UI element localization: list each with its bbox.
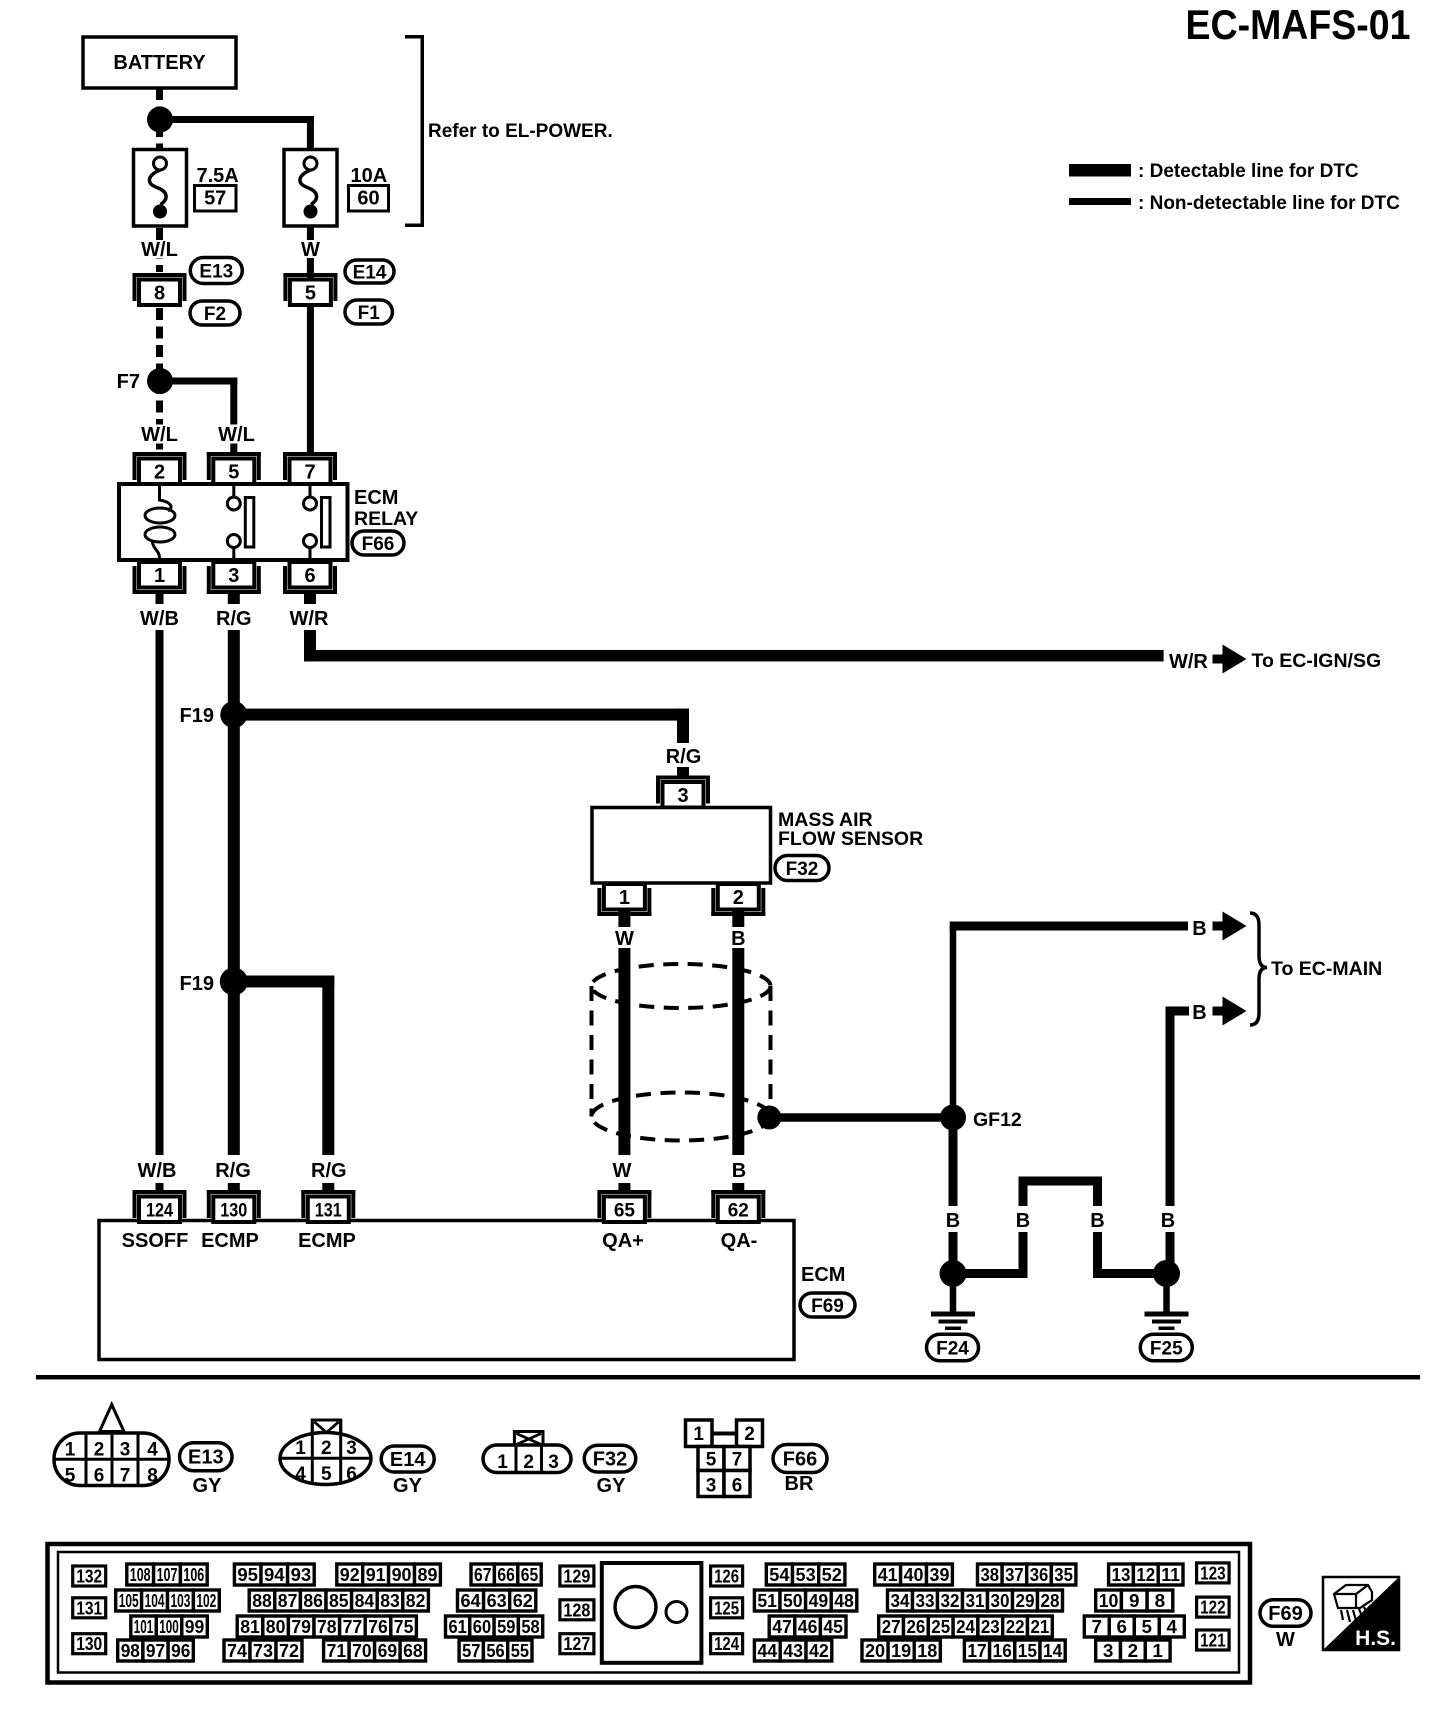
svg-text:F19: F19	[180, 973, 214, 995]
svg-text:82: 82	[406, 1591, 426, 1611]
svg-text:61: 61	[449, 1617, 467, 1637]
svg-text:QA-: QA-	[721, 1230, 758, 1252]
svg-text:22: 22	[1006, 1617, 1025, 1637]
svg-text:38: 38	[981, 1565, 1000, 1585]
svg-text:84: 84	[355, 1591, 375, 1611]
svg-text:39: 39	[930, 1565, 950, 1585]
svg-text:83: 83	[380, 1591, 400, 1611]
svg-text:1: 1	[154, 565, 165, 587]
svg-text:97: 97	[146, 1641, 165, 1661]
svg-text:B: B	[1090, 1210, 1104, 1232]
svg-text:7.5A: 7.5A	[197, 165, 239, 187]
svg-text:25: 25	[931, 1617, 950, 1637]
svg-text:10A: 10A	[351, 165, 388, 187]
svg-text:F19: F19	[180, 705, 214, 727]
svg-text:B: B	[1016, 1210, 1030, 1232]
svg-text:R/G: R/G	[215, 1160, 251, 1182]
svg-text:7: 7	[732, 1450, 743, 1471]
svg-text:5: 5	[65, 1466, 76, 1487]
svg-text:16: 16	[993, 1641, 1012, 1661]
svg-text:B: B	[1192, 1002, 1206, 1024]
svg-text:132: 132	[76, 1567, 102, 1587]
svg-text:86: 86	[303, 1591, 323, 1611]
svg-text:FLOW SENSOR: FLOW SENSOR	[778, 828, 923, 850]
svg-text:GF12: GF12	[973, 1109, 1022, 1131]
svg-text:21: 21	[1031, 1617, 1050, 1637]
svg-text:24: 24	[956, 1617, 975, 1637]
svg-text:41: 41	[878, 1565, 898, 1585]
svg-text:W/B: W/B	[140, 608, 179, 630]
svg-text:To EC-MAIN: To EC-MAIN	[1271, 958, 1382, 980]
svg-text:98: 98	[121, 1641, 140, 1661]
svg-text:W: W	[613, 1160, 632, 1182]
svg-text:F2: F2	[204, 304, 226, 325]
svg-text:6: 6	[304, 565, 315, 587]
svg-text:1: 1	[619, 887, 630, 909]
svg-text:1: 1	[65, 1440, 76, 1461]
svg-text:19: 19	[891, 1641, 911, 1661]
svg-text:37: 37	[1005, 1565, 1024, 1585]
svg-text:103: 103	[171, 1591, 191, 1611]
svg-text:2: 2	[321, 1438, 332, 1459]
svg-text:92: 92	[340, 1565, 360, 1585]
svg-text:48: 48	[834, 1591, 854, 1611]
svg-text:66: 66	[497, 1565, 514, 1585]
svg-text:17: 17	[967, 1641, 986, 1661]
svg-text:33: 33	[916, 1591, 935, 1611]
svg-text:W/L: W/L	[218, 424, 255, 446]
svg-text:122: 122	[1200, 1598, 1226, 1618]
svg-text:35: 35	[1054, 1565, 1073, 1585]
svg-text:67: 67	[474, 1565, 491, 1585]
svg-text:69: 69	[378, 1641, 398, 1661]
svg-text:To EC-IGN/SG: To EC-IGN/SG	[1252, 650, 1382, 672]
svg-text:71: 71	[327, 1641, 347, 1661]
svg-text:85: 85	[329, 1591, 349, 1611]
svg-text:5: 5	[305, 282, 316, 304]
svg-text:123: 123	[1200, 1563, 1226, 1583]
svg-text:3: 3	[228, 565, 239, 587]
svg-text:3: 3	[1103, 1641, 1114, 1661]
svg-text:H.S.: H.S.	[1355, 1627, 1396, 1650]
svg-text:8: 8	[1155, 1591, 1166, 1611]
svg-text:6: 6	[94, 1466, 105, 1487]
svg-text:51: 51	[757, 1591, 777, 1611]
svg-text:88: 88	[252, 1591, 272, 1611]
svg-text:3: 3	[346, 1438, 357, 1459]
svg-text:E14: E14	[390, 1449, 426, 1471]
svg-text:23: 23	[981, 1617, 1000, 1637]
svg-text:46: 46	[798, 1617, 818, 1637]
svg-text:125: 125	[714, 1598, 739, 1618]
svg-text:2: 2	[1128, 1641, 1139, 1661]
svg-text:43: 43	[783, 1641, 803, 1661]
svg-text:EC-MAFS-01: EC-MAFS-01	[1186, 1, 1411, 48]
svg-text:4: 4	[147, 1440, 158, 1461]
svg-text:6: 6	[732, 1476, 743, 1497]
svg-text:9: 9	[1129, 1591, 1140, 1611]
svg-text:2: 2	[154, 461, 165, 483]
svg-text:57: 57	[204, 188, 226, 210]
svg-text:2: 2	[744, 1424, 755, 1445]
svg-text:7: 7	[120, 1466, 131, 1487]
svg-text:5: 5	[321, 1464, 332, 1485]
svg-text:11: 11	[1161, 1565, 1180, 1585]
svg-text:36: 36	[1030, 1565, 1049, 1585]
svg-text:R/G: R/G	[311, 1160, 347, 1182]
svg-text:50: 50	[783, 1591, 803, 1611]
svg-text:GY: GY	[193, 1475, 223, 1497]
svg-text:QA+: QA+	[602, 1230, 644, 1252]
svg-text:29: 29	[1016, 1591, 1035, 1611]
svg-text:62: 62	[513, 1591, 533, 1611]
svg-text:60: 60	[357, 188, 379, 210]
svg-text:W/L: W/L	[141, 239, 178, 261]
svg-text:68: 68	[403, 1641, 423, 1661]
svg-text:44: 44	[757, 1641, 777, 1661]
svg-text:30: 30	[991, 1591, 1010, 1611]
svg-text:8: 8	[147, 1466, 158, 1487]
svg-text:Refer to EL-POWER.: Refer to EL-POWER.	[428, 121, 613, 142]
svg-text:90: 90	[392, 1565, 412, 1585]
svg-text:GY: GY	[597, 1475, 627, 1497]
svg-text:B: B	[946, 1210, 960, 1232]
svg-text:ECM: ECM	[354, 487, 398, 509]
svg-text:121: 121	[1200, 1631, 1226, 1651]
svg-text:76: 76	[368, 1617, 388, 1637]
svg-text:7: 7	[304, 461, 315, 483]
svg-text:31: 31	[966, 1591, 985, 1611]
svg-text:B: B	[1192, 918, 1206, 940]
svg-text:127: 127	[563, 1634, 590, 1654]
svg-text:15: 15	[1018, 1641, 1037, 1661]
svg-text:27: 27	[882, 1617, 901, 1637]
svg-text:28: 28	[1041, 1591, 1060, 1611]
svg-text:3: 3	[120, 1440, 131, 1461]
svg-text:56: 56	[486, 1641, 504, 1661]
svg-text:1: 1	[693, 1424, 704, 1445]
svg-text:5: 5	[706, 1450, 717, 1471]
svg-text:128: 128	[563, 1600, 590, 1620]
svg-text:GY: GY	[393, 1475, 423, 1497]
svg-text:W: W	[301, 239, 320, 261]
svg-text:77: 77	[343, 1617, 363, 1637]
svg-text:18: 18	[917, 1641, 937, 1661]
svg-text:F1: F1	[358, 303, 381, 324]
svg-text:53: 53	[796, 1565, 816, 1585]
svg-text:58: 58	[521, 1617, 539, 1637]
svg-text:F69: F69	[1268, 1603, 1302, 1625]
svg-text:101: 101	[134, 1617, 154, 1637]
svg-text:78: 78	[317, 1617, 337, 1637]
svg-text:70: 70	[352, 1641, 372, 1661]
svg-text:6: 6	[1117, 1617, 1128, 1637]
svg-text:26: 26	[907, 1617, 926, 1637]
svg-text:42: 42	[809, 1641, 829, 1661]
svg-text:129: 129	[563, 1567, 590, 1587]
svg-text:108: 108	[130, 1565, 151, 1585]
svg-text:ECMP: ECMP	[201, 1230, 259, 1252]
svg-text:B: B	[1161, 1210, 1175, 1232]
svg-text:104: 104	[145, 1591, 165, 1611]
svg-text:E13: E13	[199, 262, 233, 283]
svg-text:BATTERY: BATTERY	[113, 52, 206, 74]
svg-text:B: B	[731, 928, 745, 950]
svg-text:6: 6	[346, 1464, 357, 1485]
svg-text:34: 34	[891, 1591, 910, 1611]
svg-text:1: 1	[1152, 1641, 1163, 1661]
svg-text:55: 55	[511, 1641, 529, 1661]
svg-text:89: 89	[418, 1565, 438, 1585]
svg-text:BR: BR	[785, 1473, 814, 1495]
svg-text:13: 13	[1112, 1565, 1131, 1585]
svg-text:ECMP: ECMP	[298, 1230, 356, 1252]
svg-text:8: 8	[154, 282, 165, 304]
svg-text:E14: E14	[353, 263, 387, 284]
svg-text:B: B	[732, 1160, 746, 1182]
svg-text:130: 130	[220, 1200, 247, 1221]
svg-text:R/G: R/G	[666, 746, 702, 768]
svg-text:99: 99	[185, 1617, 205, 1637]
svg-text:106: 106	[183, 1565, 204, 1585]
svg-text:4: 4	[1167, 1617, 1178, 1637]
svg-text:W/L: W/L	[141, 424, 178, 446]
svg-text:F69: F69	[811, 1296, 844, 1317]
svg-text:91: 91	[366, 1565, 386, 1585]
svg-text:2: 2	[523, 1452, 534, 1473]
svg-text:F25: F25	[1150, 1339, 1183, 1360]
svg-text:W/R: W/R	[290, 608, 329, 630]
svg-text:12: 12	[1136, 1565, 1155, 1585]
svg-text:5: 5	[1142, 1617, 1153, 1637]
svg-text:131: 131	[76, 1598, 102, 1618]
svg-text:57: 57	[462, 1641, 480, 1661]
svg-text:81: 81	[240, 1617, 260, 1637]
svg-text:4: 4	[295, 1464, 306, 1485]
svg-text:RELAY: RELAY	[354, 508, 418, 530]
svg-text:79: 79	[291, 1617, 311, 1637]
svg-text:20: 20	[865, 1641, 885, 1661]
svg-text:: Non-detectable line for DTC: : Non-detectable line for DTC	[1138, 193, 1400, 214]
svg-text:52: 52	[822, 1565, 842, 1585]
svg-text:1: 1	[497, 1452, 508, 1473]
svg-text:E13: E13	[188, 1447, 224, 1469]
svg-text:F32: F32	[593, 1449, 627, 1471]
svg-text:: Detectable line for DTC: : Detectable line for DTC	[1138, 161, 1359, 182]
svg-text:14: 14	[1043, 1641, 1062, 1661]
svg-text:F66: F66	[783, 1449, 817, 1471]
svg-text:W: W	[615, 928, 634, 950]
svg-text:95: 95	[237, 1565, 258, 1585]
svg-text:73: 73	[253, 1641, 273, 1661]
svg-text:105: 105	[119, 1591, 139, 1611]
svg-text:F7: F7	[117, 371, 140, 393]
svg-text:93: 93	[291, 1565, 312, 1585]
svg-text:65: 65	[614, 1200, 636, 1221]
svg-text:100: 100	[159, 1617, 179, 1637]
svg-text:W/B: W/B	[138, 1160, 177, 1182]
svg-text:W/R: W/R	[1169, 651, 1208, 673]
svg-text:5: 5	[228, 461, 239, 483]
svg-text:3: 3	[548, 1452, 559, 1473]
svg-text:130: 130	[76, 1634, 102, 1654]
svg-text:131: 131	[315, 1200, 342, 1221]
svg-text:47: 47	[772, 1617, 792, 1637]
svg-text:63: 63	[487, 1591, 507, 1611]
svg-text:3: 3	[706, 1476, 717, 1497]
svg-text:80: 80	[266, 1617, 286, 1637]
svg-text:W: W	[1276, 1629, 1295, 1651]
svg-text:F66: F66	[362, 534, 395, 555]
svg-text:F24: F24	[936, 1339, 969, 1360]
svg-text:F32: F32	[786, 859, 819, 880]
svg-text:45: 45	[823, 1617, 843, 1637]
svg-text:64: 64	[461, 1591, 481, 1611]
svg-text:2: 2	[94, 1440, 105, 1461]
svg-text:126: 126	[714, 1567, 739, 1587]
svg-text:124: 124	[146, 1200, 173, 1221]
svg-text:10: 10	[1099, 1591, 1119, 1611]
svg-text:40: 40	[904, 1565, 924, 1585]
svg-text:87: 87	[278, 1591, 298, 1611]
svg-text:124: 124	[714, 1634, 739, 1654]
svg-text:102: 102	[196, 1591, 216, 1611]
svg-text:74: 74	[227, 1641, 247, 1661]
svg-text:7: 7	[1092, 1617, 1103, 1637]
svg-text:49: 49	[809, 1591, 829, 1611]
svg-text:R/G: R/G	[216, 608, 252, 630]
svg-text:2: 2	[733, 887, 744, 909]
svg-text:1: 1	[295, 1438, 306, 1459]
svg-text:94: 94	[264, 1565, 285, 1585]
svg-text:65: 65	[521, 1565, 538, 1585]
svg-text:60: 60	[473, 1617, 491, 1637]
svg-text:SSOFF: SSOFF	[122, 1230, 189, 1252]
svg-text:32: 32	[941, 1591, 960, 1611]
svg-text:72: 72	[279, 1641, 299, 1661]
svg-text:59: 59	[497, 1617, 515, 1637]
svg-text:96: 96	[171, 1641, 190, 1661]
svg-text:ECM: ECM	[801, 1264, 845, 1286]
svg-text:54: 54	[769, 1565, 789, 1585]
svg-text:3: 3	[677, 785, 688, 807]
svg-text:62: 62	[728, 1200, 749, 1221]
svg-text:107: 107	[157, 1565, 178, 1585]
svg-text:75: 75	[394, 1617, 414, 1637]
